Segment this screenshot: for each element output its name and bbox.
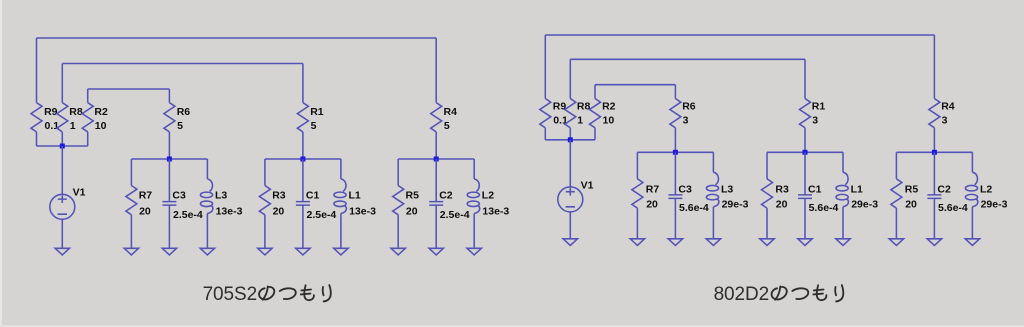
wire tank rail right xyxy=(637,151,713,153)
wire rail drop to R1 top right xyxy=(804,59,806,98)
ground xyxy=(965,239,979,246)
svg-text:L1: L1 xyxy=(851,183,863,195)
svg-text:705S2: 705S2 xyxy=(203,284,257,305)
wire R6 to tank node xyxy=(168,132,170,159)
wire to C3 top right xyxy=(674,152,676,195)
wire to L2 top right xyxy=(971,152,973,172)
svg-text:13e-3: 13e-3 xyxy=(349,206,376,218)
ground xyxy=(889,239,903,246)
svg-text:C1: C1 xyxy=(306,189,320,201)
svg-text:V1: V1 xyxy=(73,187,86,199)
svg-text:L2: L2 xyxy=(980,183,992,195)
wire bottom rail (sources) right xyxy=(545,139,595,141)
wire C1 to ground right xyxy=(804,198,806,238)
wire C2 to ground xyxy=(435,205,437,248)
capacitor C3 xyxy=(162,189,203,221)
wire to V1 top right xyxy=(569,140,571,187)
wire to L3 top xyxy=(206,159,208,179)
resistor R2 xyxy=(82,103,108,132)
inductor L2 xyxy=(965,172,1007,210)
wire tank rail xyxy=(131,158,207,160)
inductor L3 xyxy=(706,172,748,210)
wire to L1 top right xyxy=(842,152,844,172)
svg-text:C1: C1 xyxy=(808,183,822,195)
wire L1 to ground xyxy=(340,214,342,249)
ground xyxy=(706,239,720,246)
wire L3 to ground right xyxy=(712,207,714,239)
wire to L3 top right xyxy=(712,152,714,172)
svg-text:2.5e-4: 2.5e-4 xyxy=(440,209,470,221)
junction node V1+ (right) xyxy=(568,137,573,142)
resistor R7 xyxy=(632,179,659,211)
ground xyxy=(630,239,644,246)
resistor R5 xyxy=(393,186,419,218)
wire V1 to ground right xyxy=(569,212,571,239)
svg-text:R2: R2 xyxy=(94,106,108,118)
wire rail drop to R2 top xyxy=(87,89,89,103)
voltage source V1 xyxy=(558,179,594,212)
svg-text:13e-3: 13e-3 xyxy=(482,206,509,218)
wire R1 to tank node right xyxy=(804,128,806,153)
svg-text:R8: R8 xyxy=(577,101,591,113)
wire R2 bottom lead right xyxy=(594,128,596,140)
wire rail drop to R2 top right xyxy=(594,85,596,99)
wire rail drop to R1 top xyxy=(302,64,304,103)
wire rail drop to R6 top xyxy=(168,89,170,103)
svg-text:5: 5 xyxy=(444,120,450,132)
svg-text:20: 20 xyxy=(139,206,151,218)
ground xyxy=(200,248,214,255)
svg-text:C2: C2 xyxy=(937,183,951,195)
wire to R7 top xyxy=(130,159,132,186)
junction node tank 3 (left) xyxy=(434,157,439,162)
wire rail drop to R4 top right xyxy=(933,35,935,99)
wire R9 bottom lead xyxy=(36,132,38,146)
ground xyxy=(927,239,941,246)
wire R4 to tank node right xyxy=(933,128,935,153)
ground xyxy=(668,239,682,246)
svg-text:R6: R6 xyxy=(177,106,191,118)
wire R3 to ground xyxy=(264,215,266,249)
resistor R4 xyxy=(431,103,457,132)
wire C3 to ground xyxy=(168,205,170,248)
ground xyxy=(429,248,443,255)
wire R8 bottom lead right xyxy=(569,128,571,140)
svg-text:L3: L3 xyxy=(721,183,733,195)
wire R8 bottom lead xyxy=(61,132,63,146)
ground xyxy=(334,248,348,255)
svg-text:L2: L2 xyxy=(482,189,494,201)
wire rail drop to R8 top xyxy=(61,64,63,103)
svg-text:L3: L3 xyxy=(215,189,227,201)
inductor L2 xyxy=(467,179,509,218)
ground xyxy=(124,248,138,255)
wire R7 to ground right xyxy=(636,208,638,239)
resistor R6 xyxy=(164,103,190,132)
wire to R3 top right xyxy=(766,152,768,179)
svg-text:R5: R5 xyxy=(406,189,420,201)
resistor R1 xyxy=(800,99,826,128)
capacitor C2 xyxy=(927,183,968,214)
wire rail drop to R8 top right xyxy=(569,59,571,98)
ground xyxy=(563,239,577,246)
resistor R5 xyxy=(891,179,918,211)
wire R5 to ground xyxy=(397,215,399,249)
svg-text:R7: R7 xyxy=(646,183,660,195)
wire rail drop to R6 top right xyxy=(674,85,676,99)
voltage source V1 xyxy=(50,187,86,220)
junction node tank 1 (right) xyxy=(673,150,678,155)
wire top rail (R9 to R4) xyxy=(37,37,437,39)
wire L2 to ground xyxy=(473,214,475,249)
resistor R7 xyxy=(126,186,152,218)
svg-text:5.6e-4: 5.6e-4 xyxy=(938,202,968,214)
svg-text:V1: V1 xyxy=(581,179,594,191)
svg-text:R7: R7 xyxy=(139,189,153,201)
svg-text:20: 20 xyxy=(776,199,788,211)
svg-text:10: 10 xyxy=(95,120,107,132)
ground xyxy=(162,248,176,255)
inductor L3 xyxy=(200,179,242,218)
svg-text:2.5e-4: 2.5e-4 xyxy=(307,209,337,221)
wire R9 bottom lead right xyxy=(544,128,546,140)
svg-text:20: 20 xyxy=(905,199,917,211)
svg-text:C3: C3 xyxy=(172,189,186,201)
ground xyxy=(798,239,812,246)
resistor R9 xyxy=(540,99,568,128)
ground xyxy=(258,248,272,255)
svg-text:29e-3: 29e-3 xyxy=(981,199,1008,211)
wire mid rail (R8 to R1) right xyxy=(570,58,805,60)
wire tank rail right xyxy=(767,151,843,153)
svg-text:3: 3 xyxy=(812,114,818,126)
wire rail drop to R9 top right xyxy=(544,35,546,99)
svg-text:20: 20 xyxy=(406,206,418,218)
ground xyxy=(760,239,774,246)
resistor R2 xyxy=(590,99,616,128)
svg-text:R4: R4 xyxy=(941,101,955,113)
wire bottom rail (sources) xyxy=(37,145,88,147)
wire C1 to ground xyxy=(302,205,304,248)
svg-text:5: 5 xyxy=(177,120,183,132)
svg-text:2.5e-4: 2.5e-4 xyxy=(173,209,203,221)
capacitor C3 xyxy=(668,183,709,214)
svg-text:5.6e-4: 5.6e-4 xyxy=(679,202,709,214)
wire R6 to tank node right xyxy=(674,128,676,153)
svg-text:1: 1 xyxy=(577,114,583,126)
wire R5 to ground right xyxy=(895,208,897,239)
svg-text:29e-3: 29e-3 xyxy=(722,199,749,211)
svg-text:1: 1 xyxy=(70,120,76,132)
wire to R5 top xyxy=(397,159,399,186)
inductor L1 xyxy=(334,179,376,218)
inductor L1 xyxy=(836,172,878,210)
wire R7 to ground xyxy=(130,215,132,249)
ground xyxy=(391,248,405,255)
svg-text:0.1: 0.1 xyxy=(45,120,60,132)
resistor R3 xyxy=(259,186,285,218)
svg-text:3: 3 xyxy=(942,114,948,126)
svg-text:R5: R5 xyxy=(905,183,919,195)
wire tank rail right xyxy=(896,151,972,153)
svg-text:29e-3: 29e-3 xyxy=(851,199,878,211)
svg-text:C3: C3 xyxy=(678,183,692,195)
wire to C3 top xyxy=(168,159,170,202)
wire tank rail xyxy=(265,158,341,160)
ground xyxy=(55,248,69,255)
junction node V1+ (left) xyxy=(60,144,65,149)
wire L3 to ground xyxy=(206,214,208,249)
wire to R5 top right xyxy=(895,152,897,179)
wire to C2 top xyxy=(435,159,437,202)
wire low rail (R2 to R6) right xyxy=(595,84,675,86)
svg-text:R9: R9 xyxy=(44,106,58,118)
svg-text:13e-3: 13e-3 xyxy=(216,206,243,218)
svg-text:20: 20 xyxy=(273,206,285,218)
wire to R3 top xyxy=(264,159,266,186)
svg-text:10: 10 xyxy=(603,114,615,126)
junction node tank 2 (right) xyxy=(803,150,808,155)
junction node tank 2 (left) xyxy=(300,157,305,162)
capacitor C1 xyxy=(296,189,337,221)
svg-text:5.6e-4: 5.6e-4 xyxy=(809,202,839,214)
resistor R6 xyxy=(670,99,696,128)
capacitor C1 xyxy=(798,183,839,214)
wire rail drop to R9 top xyxy=(36,38,38,103)
wire to L2 top xyxy=(473,159,475,179)
wire C3 to ground right xyxy=(674,198,676,238)
svg-text:802D2: 802D2 xyxy=(714,284,770,305)
wire top rail (R9 to R4) right xyxy=(545,34,934,36)
svg-text:R1: R1 xyxy=(310,106,324,118)
resistor R9 xyxy=(31,103,59,132)
junction node tank 1 (left) xyxy=(167,157,172,162)
svg-text:R1: R1 xyxy=(812,101,826,113)
wire to C1 top xyxy=(302,159,304,202)
wire to R7 top right xyxy=(636,152,638,179)
wire R4 to tank node xyxy=(435,132,437,159)
resistor R4 xyxy=(929,99,955,128)
svg-text:R4: R4 xyxy=(444,106,458,118)
wire to V1 top xyxy=(61,146,63,194)
svg-text:C2: C2 xyxy=(439,189,453,201)
resistor R8 xyxy=(57,103,83,132)
svg-text:R2: R2 xyxy=(602,101,616,113)
wire tank rail xyxy=(398,158,474,160)
junction node tank 3 (right) xyxy=(932,150,937,155)
resistor R1 xyxy=(297,103,323,132)
wire to C2 top right xyxy=(933,152,935,195)
ground xyxy=(836,239,850,246)
wire R2 bottom lead xyxy=(87,132,89,146)
svg-text:20: 20 xyxy=(646,199,658,211)
wire R3 to ground right xyxy=(766,208,768,239)
wire C2 to ground right xyxy=(933,198,935,238)
svg-text:R8: R8 xyxy=(69,106,83,118)
svg-text:R9: R9 xyxy=(553,101,567,113)
wire mid rail (R8 to R1) xyxy=(62,63,303,65)
wire low rail (R2 to R6) xyxy=(88,88,170,90)
capacitor C2 xyxy=(429,189,470,221)
wire L1 to ground right xyxy=(842,207,844,239)
svg-text:L1: L1 xyxy=(349,189,361,201)
svg-text:R3: R3 xyxy=(272,189,286,201)
svg-text:3: 3 xyxy=(683,114,689,126)
svg-text:R3: R3 xyxy=(775,183,789,195)
wire L2 to ground right xyxy=(971,207,973,239)
svg-text:5: 5 xyxy=(311,120,317,132)
wire to L1 top xyxy=(340,159,342,179)
wire R1 to tank node xyxy=(302,132,304,159)
wire rail drop to R4 top xyxy=(435,38,437,103)
resistor R3 xyxy=(762,179,789,211)
wire V1 to ground xyxy=(61,219,63,248)
svg-text:R6: R6 xyxy=(682,101,696,113)
resistor R8 xyxy=(565,99,591,128)
wire to C1 top right xyxy=(804,152,806,195)
ground xyxy=(467,248,481,255)
ground xyxy=(296,248,310,255)
